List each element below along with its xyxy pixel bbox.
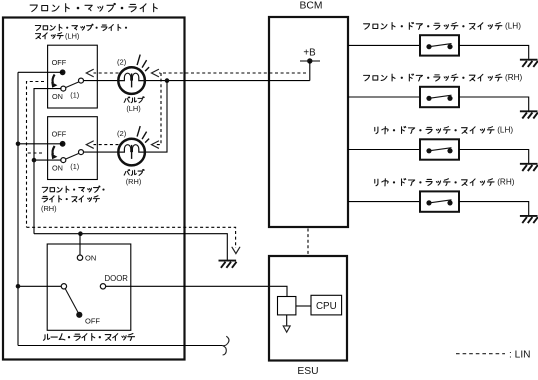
door latch switch 2: [420, 87, 459, 107]
CPU box: [311, 295, 342, 315]
+B terminal bar: [300, 60, 320, 62]
wire latch 1 to ground: [459, 45, 529, 59]
bulb RH lamp: [118, 139, 145, 166]
svg-text:(LH): (LH): [126, 104, 140, 113]
svg-text:ON: ON: [52, 92, 63, 101]
bulb LH lamp: [118, 67, 145, 94]
svg-text:ON: ON: [52, 163, 63, 172]
svg-text:(1): (1): [70, 162, 79, 171]
wire room ON drop: [79, 234, 81, 255]
wire ON rail to ground: [34, 234, 227, 260]
connector squiggle: [222, 336, 229, 355]
wire bulb LH to switch LH pivot: [83, 80, 118, 82]
ESU input block: [278, 297, 296, 315]
ground G5 interior lamp: [219, 260, 237, 262]
wire BCM to latch 3: [348, 149, 420, 151]
dashed control rail: [27, 82, 45, 228]
svg-text:ON: ON: [85, 254, 96, 263]
label bulb RH: [124, 169, 144, 175]
svg-text:(LH): (LH): [497, 126, 513, 135]
label door latch switch 4: [375, 179, 494, 186]
wire block to CPU: [296, 305, 311, 307]
svg-text:(2): (2): [117, 58, 127, 67]
junction dot lamp feed branch: [165, 78, 170, 83]
svg-text:(LH): (LH): [505, 22, 521, 31]
room contact OFF: [76, 312, 82, 318]
ground latch 3: [520, 163, 538, 165]
wire BCM to latch 4: [348, 201, 420, 203]
wire +B drop: [309, 61, 311, 81]
svg-text:(2): (2): [117, 129, 127, 138]
wire OFF rail: [17, 72, 19, 345]
svg-text:ESU: ESU: [297, 366, 318, 377]
wire DOOR to ESU: [106, 286, 287, 296]
wire branch to bulb RH: [145, 81, 167, 153]
room light switch box: [47, 244, 131, 330]
door latch switch 4: [420, 191, 459, 211]
svg-text:(RH): (RH): [497, 178, 515, 187]
arrow into bulb RH right: [152, 141, 159, 148]
front map light unit box: [3, 18, 185, 360]
dashed control stub RH: [27, 152, 43, 154]
wire OFF1 to rail: [18, 71, 63, 73]
junction room ON: [78, 231, 83, 236]
label map switch LH line2: [36, 33, 64, 39]
label map switch RH line2: [42, 196, 99, 202]
svg-text:+B: +B: [303, 48, 316, 59]
room switch arm: [65, 289, 79, 315]
svg-text:: LIN: : LIN: [509, 349, 531, 360]
label room light switch: [43, 333, 134, 340]
svg-text:(LH): (LH): [65, 32, 79, 41]
dashed tail bulb RH left: [94, 144, 119, 146]
wire latch 2 to ground: [459, 97, 529, 111]
wire latch 4 to ground: [459, 202, 529, 216]
BCM box: [269, 17, 348, 227]
junction ON rail: [32, 158, 37, 163]
wire latch 3 to ground: [459, 150, 529, 164]
wire OFF2 stub: [18, 143, 63, 145]
wire +B to bulb LH: [145, 80, 310, 82]
door latch switch 1: [420, 35, 459, 55]
junction OFF rail: [16, 142, 21, 147]
svg-text:OFF: OFF: [85, 317, 100, 326]
label door latch switch 1: [364, 22, 502, 29]
label: front map light title: [30, 3, 157, 11]
label map switch LH line1: [35, 24, 127, 30]
switch map light LH: [48, 45, 98, 108]
wire BCM to latch 1: [348, 44, 420, 46]
svg-text:(RH): (RH): [505, 73, 523, 82]
+B terminal dot: [307, 58, 312, 63]
ESU ground triangle: [283, 326, 290, 332]
svg-text:OFF: OFF: [52, 58, 67, 67]
label door latch switch 3: [375, 126, 494, 133]
switch map light RH: [48, 117, 98, 180]
label door latch switch 2: [364, 74, 502, 81]
wire bottom out: [18, 345, 222, 347]
arrow into bulb LH right: [152, 69, 159, 76]
arrow into switch LH: [86, 69, 93, 76]
label bulb LH: [124, 97, 144, 103]
wire ON1 to rail: [34, 89, 62, 234]
arrow into switch RH: [86, 141, 93, 148]
LIN legend dashes: [456, 353, 505, 355]
room contact ON: [77, 255, 82, 260]
svg-text:CPU: CPU: [316, 301, 337, 312]
arrow down to ground: [232, 247, 240, 253]
wire BCM to latch 2: [348, 96, 420, 98]
wire ON2 stub: [34, 159, 62, 161]
junction rail room: [16, 284, 21, 289]
dashed wire +B control row1: [159, 72, 306, 74]
wire rail to room common: [18, 285, 61, 287]
door latch switch 3: [420, 139, 459, 159]
svg-text:BCM: BCM: [300, 1, 323, 12]
ESU box: [269, 256, 347, 361]
svg-text:(1): (1): [70, 90, 79, 99]
label map switch RH line1: [42, 186, 104, 192]
svg-text:(RH): (RH): [41, 204, 57, 213]
dashed control to ground: [27, 227, 236, 248]
dashed LIN BCM-ESU: [307, 229, 309, 256]
svg-text:OFF: OFF: [52, 129, 67, 138]
ground latch 4: [520, 215, 538, 217]
room contact common: [61, 284, 66, 289]
dashed tail bulb LH left: [94, 72, 119, 74]
wire block to triangle: [286, 315, 288, 326]
ground latch 2: [520, 110, 538, 112]
svg-text:(RH): (RH): [126, 177, 142, 186]
wire bulb RH to switch RH pivot: [83, 151, 118, 153]
ground latch 1: [520, 59, 538, 61]
dashed branch to row2: [156, 73, 161, 145]
svg-text:DOOR: DOOR: [105, 274, 129, 283]
room contact DOOR: [100, 284, 105, 289]
